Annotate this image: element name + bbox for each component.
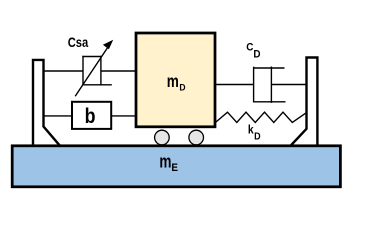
svg-text:b: b xyxy=(85,105,96,129)
svg-text:m: m xyxy=(159,151,171,171)
svg-text:E: E xyxy=(171,163,178,175)
svg-text:D: D xyxy=(179,82,186,93)
svg-text:m: m xyxy=(167,72,179,91)
svg-text:D: D xyxy=(254,131,261,143)
svg-text:D: D xyxy=(253,49,261,61)
svg-text:Csa: Csa xyxy=(68,35,89,50)
